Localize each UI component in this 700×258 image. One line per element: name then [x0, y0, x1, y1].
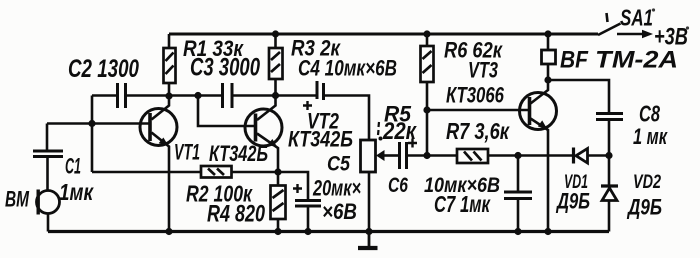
transistor VT1 emitter arrowhead [159, 138, 169, 147]
svg-text:R4 820: R4 820 [207, 201, 265, 228]
svg-text:С1: С1 [65, 154, 81, 179]
wire R1 top lead [168, 34, 171, 48]
resistor R1 [164, 48, 176, 83]
wire microphone bottom lead [47, 214, 50, 232]
svg-text:1 мк: 1 мк [633, 124, 668, 149]
wire VT1 collector lead [152, 96, 170, 120]
transistor VT1 [140, 109, 177, 146]
svg-text:С4 10мк×6В: С4 10мк×6В [298, 56, 397, 81]
speck apostrophe after +3V [686, 26, 689, 29]
wire VT1 emitter lead down [152, 133, 170, 232]
svg-text:С5: С5 [327, 153, 350, 176]
svg-text:SA1: SA1 [620, 5, 653, 31]
svg-text:ТМ-2А: ТМ-2А [595, 47, 678, 74]
capacitor C7 [504, 192, 532, 199]
microphone BM [37, 190, 60, 215]
resistor R6 [421, 46, 434, 82]
wire R4 bottom lead [277, 219, 280, 232]
wire C7 top lead [517, 156, 520, 192]
diode VD2 [601, 186, 618, 201]
wire top +3V rail [169, 33, 598, 36]
wire R7 right to VD1 [488, 154, 573, 157]
diode VD1 [574, 148, 588, 164]
svg-text:VT3: VT3 [468, 58, 498, 83]
capacitor C6 [400, 142, 407, 169]
wire VT2 collector lead [257, 96, 276, 121]
earphone BF [542, 50, 556, 64]
capacitor C8 [596, 114, 623, 120]
wire R1 bottom lead [168, 83, 171, 96]
wire R5 wiper to C6 [384, 154, 399, 157]
wire VT1 collector node (C2 to C3) [92, 94, 221, 97]
wire C5 bottom lead [307, 207, 310, 232]
wire R2 left segment [92, 171, 201, 174]
transistor VT3 emitter arrowhead [538, 120, 548, 129]
wire VD1 anode to node X [588, 154, 610, 157]
wire R6 bottom lead [426, 82, 429, 156]
transistor VT2 [245, 109, 282, 146]
wire R3 bottom lead [274, 79, 277, 96]
resistor R7 [457, 149, 488, 163]
wire VT2 emitter lead down [257, 134, 278, 173]
resistor R4 [271, 186, 286, 220]
switch SA1 fixed contact [607, 13, 608, 22]
wire R2 right to VT2 emitter node and C5 [232, 172, 309, 199]
svg-text:R7 3,6к: R7 3,6к [446, 118, 510, 144]
resistor R3 [269, 48, 283, 79]
wire VT3 base wire [427, 109, 529, 112]
arrow to +3V [617, 33, 644, 36]
wire VD2 bottom lead to rail corner [608, 201, 611, 232]
wire C3 to R3 bottom node [233, 94, 316, 97]
wire VT2 base drop from collector node of VT1 [198, 96, 255, 127]
wire C8 bottom lead [608, 121, 611, 156]
transistor VT3 [520, 93, 557, 130]
potentiometer R5 [361, 140, 376, 172]
transistor VT2 emitter arrowhead [268, 139, 278, 148]
svg-text:×6В: ×6В [322, 199, 357, 224]
capacitor C5 plus sign [293, 184, 302, 193]
svg-text:С2 1300: С2 1300 [68, 55, 139, 83]
switch SA1 lever [598, 24, 621, 36]
svg-text:КТ342Б: КТ342Б [209, 141, 268, 166]
wire VT3 collector lead [531, 80, 549, 104]
wire R6 top lead [426, 34, 429, 46]
wire R4 top lead [277, 172, 280, 186]
R5 label leader dot [379, 137, 383, 141]
wire C4 to R5 pot top [325, 96, 370, 140]
svg-text:BF: BF [560, 47, 589, 74]
svg-text:С8: С8 [639, 101, 660, 127]
svg-text:20мк×: 20мк× [312, 176, 361, 201]
wire bottom ground rail [48, 230, 609, 233]
wire C2 left to VT1 base vertical [91, 96, 94, 173]
svg-text:С3 3000: С3 3000 [190, 54, 260, 82]
svg-text:22к: 22к [382, 118, 417, 145]
svg-text:1мк: 1мк [59, 179, 94, 205]
svg-text:С7 1мк: С7 1мк [434, 191, 491, 217]
wire R3 top lead [274, 34, 277, 48]
wire C1 bottom lead to microphone [46, 157, 49, 191]
speck apostrophe after SA1 [652, 8, 655, 11]
svg-text:+3В: +3В [654, 24, 688, 51]
capacitor C3 [223, 83, 233, 108]
svg-text:Д9Б: Д9Б [626, 195, 662, 220]
wire C7 bottom lead [517, 200, 520, 232]
wire VD2 top lead [608, 156, 611, 187]
wire VT3 emitter lead down [531, 119, 549, 232]
svg-text:ВМ: ВМ [5, 187, 29, 212]
svg-text:VT1: VT1 [174, 140, 200, 165]
wire BF top lead [547, 34, 550, 50]
resistor R2 [201, 166, 232, 178]
arrowhead of +3V arrow [642, 30, 653, 39]
svg-text:КТ342Б: КТ342Б [288, 127, 353, 152]
capacitor C2 [118, 83, 126, 108]
capacitor C6 plus sign [408, 139, 417, 148]
ground symbol [358, 232, 378, 249]
potentiometer R5 wiper arrowhead [376, 150, 385, 161]
svg-text:С6: С6 [388, 174, 408, 197]
wire C6 to R6 bottom node [407, 154, 458, 157]
capacitor C5 [295, 201, 321, 207]
svg-text:VD2: VD2 [633, 171, 661, 193]
R5 label leader dashes [378, 122, 379, 135]
wire R5 pot bottom lead [368, 172, 371, 232]
wire C1 top lead [46, 124, 49, 150]
capacitor C1 [33, 151, 63, 157]
capacitor C4 [317, 81, 324, 100]
wire BF bottom lead [547, 64, 550, 80]
svg-text:КТ3066: КТ3066 [446, 83, 505, 108]
capacitor C4 plus sign [303, 101, 312, 110]
svg-text:Д9Б: Д9Б [555, 189, 590, 214]
wire VT1 base from C1 [47, 122, 149, 125]
wire BF node to C8 [548, 80, 609, 112]
